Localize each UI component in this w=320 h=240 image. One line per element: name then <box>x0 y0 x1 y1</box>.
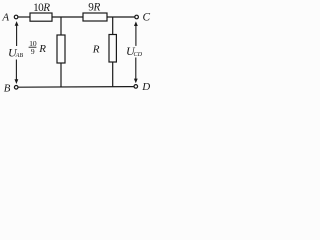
node A terminal <box>1 12 18 24</box>
resistor R3 10/9 R vertical <box>29 35 65 63</box>
wire R4 to bottom <box>112 62 114 87</box>
bottom wire B to D <box>18 86 134 89</box>
wire A to R1 <box>18 16 30 18</box>
svg-text:R: R <box>38 43 46 55</box>
background <box>0 0 156 96</box>
svg-text:D: D <box>141 81 150 93</box>
wire R2 to C <box>107 16 135 18</box>
voltage arrow Ucd upper (points to C) <box>134 21 138 46</box>
voltage arrow Uab upper (points to A) <box>15 21 19 46</box>
voltage arrow Uab lower (points to B) <box>15 60 19 85</box>
svg-text:9: 9 <box>31 47 35 56</box>
svg-text:9R: 9R <box>88 2 100 14</box>
resistor R4 R vertical <box>92 35 117 63</box>
resistor R2 9R <box>83 2 107 21</box>
voltage arrow Ucd lower (points to D) <box>134 58 138 84</box>
svg-text:10R: 10R <box>33 2 50 14</box>
node B terminal <box>4 83 18 95</box>
svg-text:AB: AB <box>15 52 24 59</box>
svg-text:R: R <box>92 43 100 55</box>
svg-text:A: A <box>1 12 9 24</box>
resistor R1 10R <box>30 2 52 21</box>
wire R1 to R2 <box>52 16 83 18</box>
node D terminal <box>134 81 150 93</box>
wire top junction to R3 <box>60 17 62 35</box>
node C terminal <box>135 12 151 24</box>
label Uab <box>8 46 23 60</box>
wire top junction to R4 <box>112 17 114 35</box>
svg-text:C: C <box>143 12 151 24</box>
svg-text:B: B <box>4 83 11 95</box>
label Ucd <box>126 44 143 58</box>
wire R3 to bottom <box>60 63 62 87</box>
svg-text:CD: CD <box>134 51 143 58</box>
